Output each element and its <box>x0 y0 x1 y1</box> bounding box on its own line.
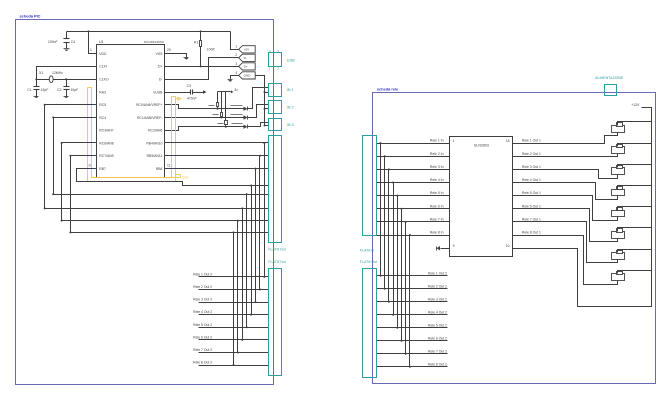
svg-text:3: 3 <box>235 62 237 66</box>
wire/net: Rele 1 Out 2 <box>199 276 269 278</box>
svg-text:18: 18 <box>506 139 510 143</box>
wire/net: Rele 1 In <box>377 143 450 145</box>
junction node crystal left <box>35 78 37 80</box>
svg-text:CLKO: CLKO <box>99 78 109 82</box>
svg-text:1: 1 <box>453 139 455 143</box>
svg-text:RC1/AN5/VREF-: RC1/AN5/VREF- <box>137 116 162 120</box>
wire: diode1 to IN1 <box>248 88 269 109</box>
svg-text:RC4: RC4 <box>99 116 106 120</box>
wire/net: Rele 6 Out 2 <box>199 339 269 341</box>
svg-text:Rele 3 In: Rele 3 In <box>430 165 444 169</box>
svg-text:+12V: +12V <box>631 103 640 107</box>
svg-text:C4: C4 <box>71 40 75 44</box>
junction node on VDD rail at pin1 drop <box>87 30 89 32</box>
wire: In-to-Out2 vertical 5 <box>397 196 399 328</box>
svg-text:ALIMENTAZIONE: ALIMENTAZIONE <box>595 76 624 80</box>
svg-text:VUSB: VUSB <box>153 90 163 94</box>
svg-text:scheda PIC: scheda PIC <box>20 14 41 19</box>
wire: In-to-Out2 vertical 8 <box>409 236 411 367</box>
USB plug pin 2 D- <box>239 54 256 61</box>
wire: RC6 bus <box>62 143 269 221</box>
svg-text:RC2/AN6: RC2/AN6 <box>148 129 162 133</box>
wire: In-to-Out2 vertical 7 <box>405 222 407 354</box>
svg-text:11: 11 <box>167 164 171 168</box>
junction gnd-IN1 <box>264 91 266 93</box>
wire/net: Rele 8 Out 2 <box>199 365 269 367</box>
svg-text:Rele 5 In: Rele 5 In <box>430 191 444 195</box>
wire: relay K1 to +12V rail <box>618 122 652 126</box>
svg-text:D+: D+ <box>158 65 162 69</box>
wire: In-to-Out2 vertical 2 <box>384 157 386 289</box>
svg-text:Rele 5 Out 1: Rele 5 Out 1 <box>522 191 541 195</box>
svg-text:D+: D+ <box>244 65 248 69</box>
wire: diode3 to IN3 <box>248 123 269 127</box>
wire/net: Rele 4 Out 1 <box>513 183 618 200</box>
svg-text:U1: U1 <box>99 40 104 44</box>
wire/net: Rele 7 Out 2 <box>199 352 269 354</box>
svg-text:scheda rele: scheda rele <box>377 86 399 91</box>
wire: relay K8 to +12V rail <box>618 271 652 274</box>
wire/net: Rele 4 Out 2 (right) <box>377 314 448 316</box>
svg-text:RC6/AN8: RC6/AN8 <box>99 141 113 145</box>
svg-text:9: 9 <box>453 244 455 248</box>
svg-text:1: 1 <box>90 48 92 52</box>
USB plug pin 4 GND <box>239 72 256 79</box>
connector FLAT8 In (teal box) <box>363 136 377 236</box>
svg-text:C1: C1 <box>27 88 31 92</box>
svg-text:Rele 8 Out 2: Rele 8 Out 2 <box>193 361 212 365</box>
svg-text:VSS: VSS <box>156 52 164 56</box>
svg-text:Rele 4 In: Rele 4 In <box>430 178 444 182</box>
svg-text:2: 2 <box>235 53 237 57</box>
svg-text:CLKI: CLKI <box>99 65 107 69</box>
ground under C2 <box>64 96 69 98</box>
svg-text:Rele 8 Out 1: Rele 8 Out 1 <box>522 231 541 235</box>
wire: bus vertical 4 <box>251 186 253 315</box>
svg-text:R1: R1 <box>194 41 198 45</box>
wire/net: Rele 2 Out 2 <box>199 289 269 291</box>
svg-text:RC3/AN7: RC3/AN7 <box>99 129 113 133</box>
net flag at C3 right <box>203 91 205 94</box>
relay K4 coil <box>612 190 625 196</box>
relay K6 coil <box>612 232 625 239</box>
junction gnd-IN3 <box>264 125 266 127</box>
wire: VDD top rail <box>67 31 231 33</box>
value dashes channel 2 <box>213 114 219 116</box>
wire: U1 D- to USB pin2 D- <box>165 58 239 80</box>
svg-text:Rele 4 Out 2: Rele 4 Out 2 <box>193 310 212 314</box>
svg-text:Rele 7 Out 2: Rele 7 Out 2 <box>428 349 447 353</box>
highlighted Gnd net stub to label <box>176 174 181 176</box>
wire/net: Rele 5 Out 2 <box>199 327 269 329</box>
svg-text:Rele 6 Out 2: Rele 6 Out 2 <box>193 335 212 339</box>
junction node R1 bottom on D+ line <box>200 65 202 67</box>
svg-text:IN 3: IN 3 <box>287 123 294 127</box>
junction gnd-IN2 <box>264 108 266 110</box>
wire: In-to-Out2 vertical 3 <box>388 170 390 302</box>
connector FLAT8 Out (lower teal box) <box>269 269 282 376</box>
svg-text:VDD: VDD <box>99 52 107 56</box>
highlighted Gnd net (yellow) left vertical <box>88 88 176 182</box>
wire/net: Rele 1 Out 1 <box>513 133 618 144</box>
svg-text:Rele 2 Out 1: Rele 2 Out 1 <box>522 152 541 156</box>
USB plug pin 3 D+ <box>239 63 256 70</box>
wire: relay K5 to +12V rail <box>618 207 652 211</box>
wire/net: Rele 5 Out 2 (right) <box>377 327 448 329</box>
wire: channel 1 RC0/AN4 input line <box>165 105 244 109</box>
wire: relay K3 to +12V rail <box>618 165 652 168</box>
svg-text:Rele 1 Out 2: Rele 1 Out 2 <box>193 272 212 276</box>
svg-text:D-: D- <box>159 78 163 82</box>
wire/net: Rele 8 Out 2 (right) <box>377 366 448 368</box>
wire: RB5/AN11 to FLAT8 <box>165 155 269 157</box>
wire: relay K6 to +12V rail <box>618 228 652 232</box>
wire: RB6 to FLAT8 <box>165 168 269 170</box>
wire/net: Rele 3 Out 2 <box>199 302 269 304</box>
wire/net: Rele 6 Out 2 (right) <box>377 340 448 342</box>
IC U2 ULN2803 body <box>450 137 513 257</box>
resistor R1 100K <box>200 32 202 41</box>
wire/net: Rele 8 Out 1 <box>513 236 618 285</box>
wire: channel 3 RC2/AN6 input line <box>165 127 244 131</box>
wire: bus vertical 1 <box>264 143 266 277</box>
connector ALIMENTAZIONE (teal box) <box>605 85 617 96</box>
diode channel 1 <box>244 107 248 111</box>
wire: RC7 bus <box>71 156 269 233</box>
capacitor C4 100nF <box>66 32 68 39</box>
wire/net: Rele 6 Out 1 <box>513 209 618 242</box>
svg-text:IN 2: IN 2 <box>287 106 294 110</box>
wire/net: Rele 3 In <box>377 169 450 171</box>
wire: diode2 to IN2 <box>248 105 269 118</box>
wire: relay K7 to +12V rail <box>618 250 652 253</box>
wire: In-to-Out2 vertical 1 <box>380 144 382 276</box>
svg-text:Rele 7 Out 1: Rele 7 Out 1 <box>522 217 541 221</box>
svg-text:2: 2 <box>277 67 279 71</box>
svg-text:C2: C2 <box>57 88 61 92</box>
connector IN 3 (teal box) <box>269 119 282 131</box>
wire: channel 2 RC1/AN5 input line <box>165 117 244 119</box>
wire: CLKI to crystal left node <box>37 67 97 80</box>
svg-text:RB4/AN10: RB4/AN10 <box>146 141 162 145</box>
crystal X1 12MHz <box>37 79 67 81</box>
svg-text:10: 10 <box>506 244 510 248</box>
svg-text:Rele 8 Out 2: Rele 8 Out 2 <box>428 362 447 366</box>
relay K3 coil <box>612 168 625 175</box>
svg-text:Rele 6 Out 1: Rele 6 Out 1 <box>522 204 541 208</box>
svg-text:GND: GND <box>244 74 252 78</box>
svg-text:PIC18F14K50: PIC18F14K50 <box>144 40 164 44</box>
svg-text:Rele 2 In: Rele 2 In <box>430 152 444 156</box>
svg-text:3v: 3v <box>234 88 238 92</box>
svg-text:Gnd: Gnd <box>182 175 189 179</box>
wire: +12V rail to ULN pin 10 <box>513 108 652 307</box>
wire: bus vertical 6 <box>242 209 244 340</box>
svg-text:Rele 7 Out 2: Rele 7 Out 2 <box>193 348 212 352</box>
wire: USB pin4 GND to ground <box>231 76 239 80</box>
svg-text:FLAT8 In: FLAT8 In <box>360 248 375 252</box>
svg-text:+5V: +5V <box>244 48 251 52</box>
pull-up resistor channel 2 <box>221 92 223 113</box>
svg-text:Rele 1 In: Rele 1 In <box>430 139 444 143</box>
svg-text:FLAT8 Out: FLAT8 Out <box>360 260 377 264</box>
USB plug pin 1 +5V <box>239 46 256 53</box>
svg-text:4: 4 <box>235 71 237 75</box>
wire: bus vertical 5 <box>246 195 248 328</box>
wire/net: Rele 4 In <box>377 182 450 184</box>
wire/net: Rele 2 In <box>377 156 450 158</box>
wire/net: Rele 2 Out 1 <box>513 154 618 157</box>
svg-text:D-: D- <box>244 56 247 60</box>
svg-text:Rele 8 In: Rele 8 In <box>430 231 444 235</box>
wire: bus vertical 7 <box>237 221 239 353</box>
svg-text:Rele 3 Out 2: Rele 3 Out 2 <box>428 297 447 301</box>
wire: USB GND common to IN connectors <box>256 76 265 126</box>
svg-text:12MHz: 12MHz <box>52 71 63 75</box>
junction node on VDD rail at R1 <box>200 30 202 32</box>
wire: RB7 bus under chip <box>77 169 269 186</box>
svg-text:RC0/AN4/VREF+: RC0/AN4/VREF+ <box>136 103 162 107</box>
relay K5 coil <box>612 211 625 217</box>
wire: CLKO to crystal right node <box>67 79 97 81</box>
svg-text:Rele 1 Out 2: Rele 1 Out 2 <box>428 271 447 275</box>
svg-text:Rele 5 Out 2: Rele 5 Out 2 <box>428 323 447 327</box>
wire: VDD rail to USB pin1 +5V <box>231 32 239 50</box>
connector USB (teal box) <box>269 53 282 67</box>
sheet frame: scheda rele <box>373 93 656 384</box>
pull-up resistor channel 3 <box>225 92 227 121</box>
connector IN 2 (teal box) <box>269 101 282 114</box>
svg-text:USB: USB <box>287 57 296 62</box>
svg-text:FLAT8 Out: FLAT8 Out <box>268 248 285 252</box>
wire: U1 D+ to USB pin3 D+ <box>165 66 239 68</box>
capacitor C3 470nF <box>190 90 192 95</box>
diode channel 3 <box>244 125 248 129</box>
wire/net: Rele 3 Out 1 <box>513 170 618 179</box>
svg-text:RA3: RA3 <box>99 90 106 94</box>
wire/net: Rele 2 Out 2 (right) <box>377 288 448 290</box>
wire: RB4/AN10 to FLAT8 <box>165 142 269 144</box>
wire/net: Rele 5 In <box>377 195 450 197</box>
wire/net: Rele 3 Out 2 (right) <box>377 301 448 303</box>
relay K2 coil <box>612 147 625 154</box>
svg-text:ULN2803: ULN2803 <box>474 144 489 148</box>
wire/net: Rele 4 Out 2 <box>199 314 269 316</box>
yellow net flag top right <box>178 97 181 100</box>
svg-text:20: 20 <box>167 48 171 52</box>
svg-text:Rele 2 Out 2: Rele 2 Out 2 <box>193 285 212 289</box>
net 3v rail <box>218 91 231 93</box>
svg-text:Rele 7 In: Rele 7 In <box>430 217 444 221</box>
svg-text:X1: X1 <box>39 71 43 75</box>
ground at USB GND <box>228 79 233 81</box>
svg-text:100nF: 100nF <box>48 40 59 44</box>
pull-up resistor channel 1 <box>217 92 219 103</box>
svg-text:Rele 4 Out 1: Rele 4 Out 1 <box>522 178 541 182</box>
wire: U1 VSS pin 20 to ground <box>165 54 187 58</box>
svg-text:Rele 1 Out 1: Rele 1 Out 1 <box>522 139 541 143</box>
svg-text:C3: C3 <box>187 84 191 88</box>
connector FLAT8 Out right sheet (teal box) <box>363 269 377 378</box>
ground under C4 <box>64 48 70 50</box>
svg-text:RB5/AN11: RB5/AN11 <box>147 154 163 158</box>
svg-text:RB7: RB7 <box>99 167 106 171</box>
wire/net: Rele 7 Out 1 <box>513 222 618 263</box>
diode channel 2 <box>244 115 248 119</box>
relay K8 coil <box>612 274 625 281</box>
value dashes channel 1 <box>209 105 215 107</box>
wire/net: Rele 8 In <box>377 235 450 237</box>
svg-text:Rele 2 Out 2: Rele 2 Out 2 <box>428 284 447 288</box>
capacitor C1 15pF <box>36 80 38 87</box>
relay K1 coil <box>612 126 625 133</box>
ground at VSS <box>184 57 189 59</box>
wire: In-to-Out2 vertical 4 <box>393 183 395 315</box>
value dashes channel 3 <box>218 123 224 125</box>
ground under C1 <box>34 96 39 98</box>
wire: U1 VUSB to C3 <box>165 92 191 94</box>
wire: rail to U1 pin 1 VDD <box>89 32 97 54</box>
wire/net: Rele 7 Out 2 (right) <box>377 353 448 355</box>
wire: RC4 bus <box>54 118 269 195</box>
svg-text:RC5: RC5 <box>99 103 106 107</box>
svg-text:15pF: 15pF <box>70 88 79 92</box>
svg-text:FLAT8 Out: FLAT8 Out <box>268 260 285 264</box>
svg-text:Rele 4 Out 2: Rele 4 Out 2 <box>428 310 447 314</box>
sheet frame: scheda PIC <box>16 20 274 385</box>
capacitor C2 15pF <box>66 80 68 87</box>
wire/net: Rele 1 Out 2 (right) <box>377 275 448 277</box>
svg-text:Rele 3 Out 2: Rele 3 Out 2 <box>193 298 212 302</box>
IC U1 PIC18F14K50 body <box>97 45 165 178</box>
svg-text:1: 1 <box>235 45 237 49</box>
wire: RC5 bus <box>45 105 269 209</box>
svg-text:470nF: 470nF <box>187 97 198 101</box>
wire/net: Rele 6 In <box>377 208 450 210</box>
wire/net: Rele 5 Out 1 <box>513 196 618 221</box>
ULN pin 9 ground arrow <box>441 248 450 250</box>
connector IN 1 (teal box) <box>269 84 282 97</box>
svg-text:Rele 6 In: Rele 6 In <box>430 204 444 208</box>
wire/net: Rele 7 In <box>377 221 450 223</box>
wire: relay K4 to +12V rail <box>618 186 652 190</box>
wire: bus vertical 8 <box>233 233 235 366</box>
relay K7 coil <box>612 253 625 260</box>
svg-text:Rele 6 Out 2: Rele 6 Out 2 <box>428 336 447 340</box>
svg-text:100K: 100K <box>207 47 216 51</box>
wire: bus vertical 3 <box>255 169 257 303</box>
wire: bus vertical 2 <box>259 156 261 290</box>
svg-text:IN 1: IN 1 <box>287 88 294 92</box>
junction node crystal right <box>65 78 67 80</box>
wire: relay K2 to +12V rail <box>618 144 652 147</box>
svg-text:1: 1 <box>269 67 271 71</box>
svg-text:15pF: 15pF <box>41 88 50 92</box>
connector FLAT8 Out (upper teal box) <box>269 136 282 243</box>
svg-text:RB6: RB6 <box>156 167 163 171</box>
svg-text:Rele 5 Out 2: Rele 5 Out 2 <box>193 323 212 327</box>
svg-text:RC7/AN9: RC7/AN9 <box>99 154 113 158</box>
svg-text:Rele 3 Out 1: Rele 3 Out 1 <box>522 165 541 169</box>
wire: In-to-Out2 vertical 6 <box>401 209 403 341</box>
